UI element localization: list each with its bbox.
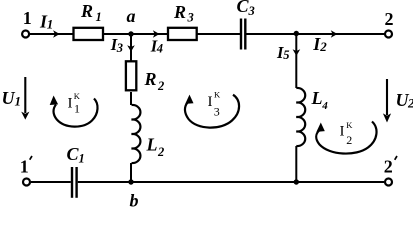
- svg-text:1: 1: [47, 17, 54, 32]
- svg-text:2: 2: [385, 9, 394, 29]
- current arrow I3: [110, 35, 135, 55]
- svg-text:3: 3: [248, 4, 255, 18]
- svg-text:3: 3: [116, 41, 123, 55]
- current arrow I2: [312, 30, 337, 54]
- svg-text:4: 4: [156, 42, 163, 56]
- svg-text:K: K: [74, 91, 81, 101]
- terminal 1: [22, 8, 32, 38]
- svg-text:K: K: [214, 90, 221, 100]
- inductor L4: [296, 88, 328, 146]
- svg-text:I: I: [208, 94, 213, 110]
- voltage arrow U1: [2, 77, 30, 120]
- node top right junction: [294, 31, 299, 36]
- svg-text:I: I: [68, 96, 73, 112]
- resistor R1: [74, 1, 104, 40]
- wire top: R1 to R3 through node a: [103, 33, 168, 35]
- svg-text:2: 2: [407, 96, 413, 111]
- current arrow I1: [39, 12, 60, 38]
- wire top: terminal 1 to R1: [30, 33, 74, 35]
- terminal 2: [385, 9, 394, 37]
- svg-text:3: 3: [214, 105, 220, 119]
- svg-text:2: 2: [157, 145, 164, 159]
- current arrow I4: [150, 30, 163, 55]
- voltage arrow U2: [383, 79, 413, 123]
- svg-text:K: K: [346, 120, 353, 130]
- terminal 1': [20, 156, 32, 186]
- svg-text:2: 2: [319, 39, 327, 54]
- wire bottom: C1 to terminal 2' through node b: [78, 181, 384, 183]
- wire top: C3 to terminal 2: [246, 33, 385, 35]
- svg-text:b: b: [130, 191, 139, 208]
- wire top: R3 to C3: [197, 33, 241, 35]
- node bottom right junction: [294, 179, 299, 184]
- inductor L2: [132, 105, 165, 163]
- svg-text:4: 4: [321, 100, 328, 112]
- svg-text:1: 1: [74, 102, 80, 116]
- resistor R3: [168, 2, 197, 40]
- svg-text:a: a: [127, 6, 136, 26]
- svg-text:U: U: [2, 88, 16, 108]
- svg-text:2: 2: [346, 133, 352, 147]
- svg-text:L: L: [146, 135, 158, 155]
- svg-text:5: 5: [283, 48, 289, 62]
- svg-text:1: 1: [23, 8, 32, 28]
- svg-text:2: 2: [384, 157, 393, 177]
- svg-text:3: 3: [187, 11, 194, 25]
- capacitor C1: [67, 144, 85, 198]
- loop current I1K arc: [50, 91, 98, 126]
- loop current I3K arc: [185, 90, 239, 128]
- node a: [127, 6, 136, 37]
- wire right branch: top node down to L4: [295, 34, 297, 88]
- svg-text:R: R: [173, 2, 186, 22]
- wire middle branch: L2 to node b: [130, 163, 132, 182]
- terminal 2': [384, 156, 397, 186]
- resistor R2: [126, 61, 164, 93]
- svg-text:1: 1: [96, 10, 102, 24]
- svg-text:1: 1: [15, 94, 22, 109]
- svg-text:2: 2: [157, 79, 164, 93]
- current arrow I5: [276, 43, 300, 62]
- svg-text:1: 1: [20, 157, 29, 177]
- node b: [128, 179, 138, 210]
- wire right branch: L4 to bottom wire: [295, 146, 297, 182]
- svg-text:1: 1: [79, 152, 85, 166]
- capacitor C3: [237, 0, 255, 50]
- loop current I2K arc: [316, 120, 376, 154]
- svg-text:R: R: [144, 69, 157, 89]
- svg-text:R: R: [80, 1, 93, 21]
- wire middle branch: node a down to R2: [130, 34, 132, 61]
- wire bottom: terminal 1' to C1: [31, 181, 71, 183]
- svg-text:L: L: [311, 88, 323, 108]
- svg-text:I: I: [340, 124, 345, 140]
- wire middle branch: R2 to L2: [130, 92, 132, 105]
